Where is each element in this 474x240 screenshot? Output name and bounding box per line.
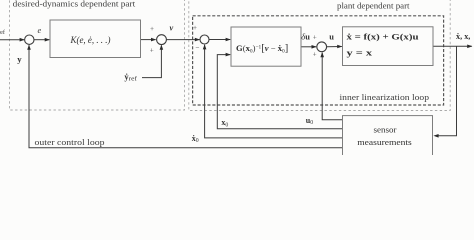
svg-text:e: e xyxy=(38,26,42,35)
svg-text:outer control loop: outer control loop xyxy=(35,137,105,147)
wire: y_ref input into sum S1 xyxy=(0,39,24,41)
wire: sum S3 to block G xyxy=(209,39,230,41)
svg-text:y = x: y = x xyxy=(347,47,373,57)
wire: output tap down to sensor measurements xyxy=(438,46,457,136)
sum junction S3 (nu - xdot0) xyxy=(200,35,209,44)
svg-text:ν: ν xyxy=(170,23,174,32)
svg-text:inner linearization loop: inner linearization loop xyxy=(340,92,430,102)
svg-text:desired-dynamics dependent par: desired-dynamics dependent part xyxy=(13,0,136,9)
svg-text:+: + xyxy=(193,24,197,32)
svg-text:+: + xyxy=(313,34,317,42)
wire: sum S4 to plant block (signal u) xyxy=(327,46,342,48)
sum junction S1 (e = y_ref - y) xyxy=(25,35,34,44)
block K(e, edot, ...) xyxy=(50,20,141,58)
svg-text:G(x0)−1[ν − ẋ0]: G(x0)−1[ν − ẋ0] xyxy=(236,43,288,55)
wire: x0 feedback from sensor to block G lower input xyxy=(217,55,342,129)
svg-text:−: − xyxy=(195,44,199,52)
sum junction S2 (nu = K + ydot_ref) xyxy=(157,35,167,45)
svg-text:y: y xyxy=(17,54,22,64)
svg-text:K(e, ė, . . .): K(e, ė, . . .) xyxy=(70,35,111,45)
wire: plant output to right edge (signal xdot, x) xyxy=(433,45,472,47)
dashed box: plant dependent part xyxy=(189,0,450,111)
wire: sum S2 to sum S3 (signal nu) xyxy=(166,39,199,41)
svg-text:sensor: sensor xyxy=(374,125,397,135)
svg-text:+: + xyxy=(150,46,154,54)
plant block: xdot = f(x) + G(x)u ; y = x xyxy=(343,27,434,66)
dashed box: inner linearization loop xyxy=(193,16,444,105)
sum junction S4 (u = delta-u + u0) xyxy=(317,42,327,52)
svg-text:plant dependent part: plant dependent part xyxy=(337,1,410,10)
svg-text:u: u xyxy=(329,32,334,41)
wire: xdot0 feedback from sensor to sum S3 xyxy=(205,45,343,138)
svg-text:+: + xyxy=(313,50,317,58)
svg-text:ẋ, x,: ẋ, x, xyxy=(456,32,470,41)
wire: block G to sum S4 (signal delta-u) xyxy=(301,46,316,48)
svg-text:measurements: measurements xyxy=(357,137,412,147)
wire: y feedback (outer loop) from sensor to sum S1 xyxy=(29,45,343,148)
wire: sum S1 to block K (signal e) xyxy=(34,39,49,41)
wire: block K to sum S2 xyxy=(141,39,156,41)
dashed box: desired-dynamics dependent part xyxy=(10,0,185,110)
wire: ydot_ref input to sum S2 xyxy=(142,45,161,77)
svg-text:ẋ = f(x) + G(x)u: ẋ = f(x) + G(x)u xyxy=(347,31,419,41)
svg-text:+: + xyxy=(150,25,154,33)
wire: u0 feedback from sensor to sum S4 xyxy=(322,53,342,120)
block: sensor measurements xyxy=(343,116,433,164)
svg-text:δu: δu xyxy=(301,32,310,41)
block G(x0)^-1 [nu - xdot0] xyxy=(231,27,301,66)
